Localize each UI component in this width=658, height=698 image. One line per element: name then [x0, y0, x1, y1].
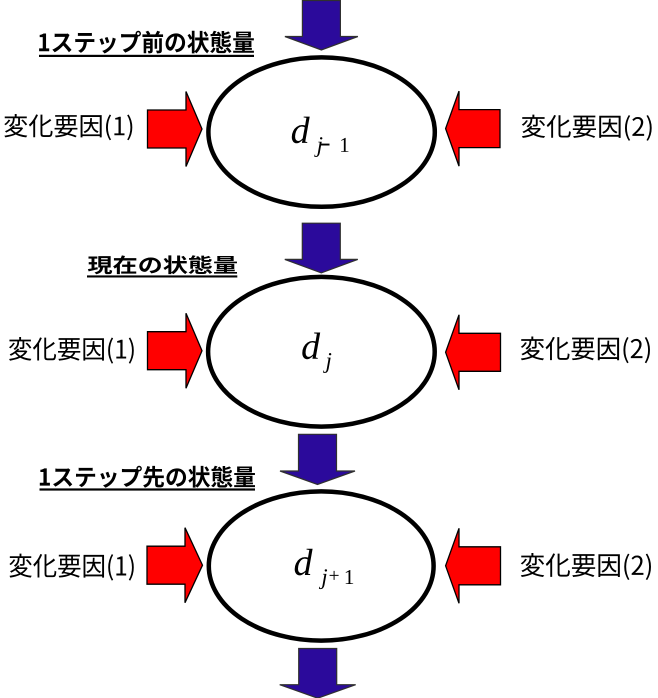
- label: 変化要因(1) row 1: [4, 114, 132, 140]
- heading: 1ステップ先の状態量 (underlined): [40, 466, 255, 488]
- red right arrow: 変化要因(1) row 2: [148, 313, 203, 388]
- label: 変化要因(1) row 2: [9, 337, 134, 364]
- ellipse: state d_(j+1): [209, 491, 434, 640]
- blue down arrow into ellipse d_(j-1): [285, 1, 358, 51]
- red right arrow: 変化要因(1) row 3: [147, 528, 203, 603]
- blue down arrow out of ellipse d_(j+1): [280, 649, 356, 698]
- label: 変化要因(2) row 3: [521, 553, 651, 580]
- label: 変化要因(1) row 3: [9, 554, 133, 581]
- red left arrow: 変化要因(2) row 3: [446, 528, 501, 603]
- red right arrow: 変化要因(1) row 1: [148, 92, 203, 167]
- ellipse: state d_j: [208, 277, 435, 427]
- heading: 1ステップ前の状態量 (underlined): [39, 31, 254, 54]
- red left arrow: 変化要因(2) row 1: [446, 91, 500, 166]
- math label: d subscript j+1: [295, 549, 313, 576]
- math label: d subscript j: [302, 332, 320, 359]
- red left arrow: 変化要因(2) row 2: [446, 315, 501, 390]
- blue down arrow from d_(j-1) into ellipse d_j: [285, 223, 358, 273]
- heading: 現在の状態量 (underlined): [88, 255, 237, 274]
- label: 変化要因(2) row 2: [521, 336, 650, 363]
- ellipse: state d_(j-1): [208, 57, 434, 206]
- label: 変化要因(2) row 1: [522, 115, 652, 141]
- math label: d subscript j-1: [292, 117, 310, 144]
- blue down arrow from d_j into ellipse d_(j+1): [280, 434, 355, 484]
